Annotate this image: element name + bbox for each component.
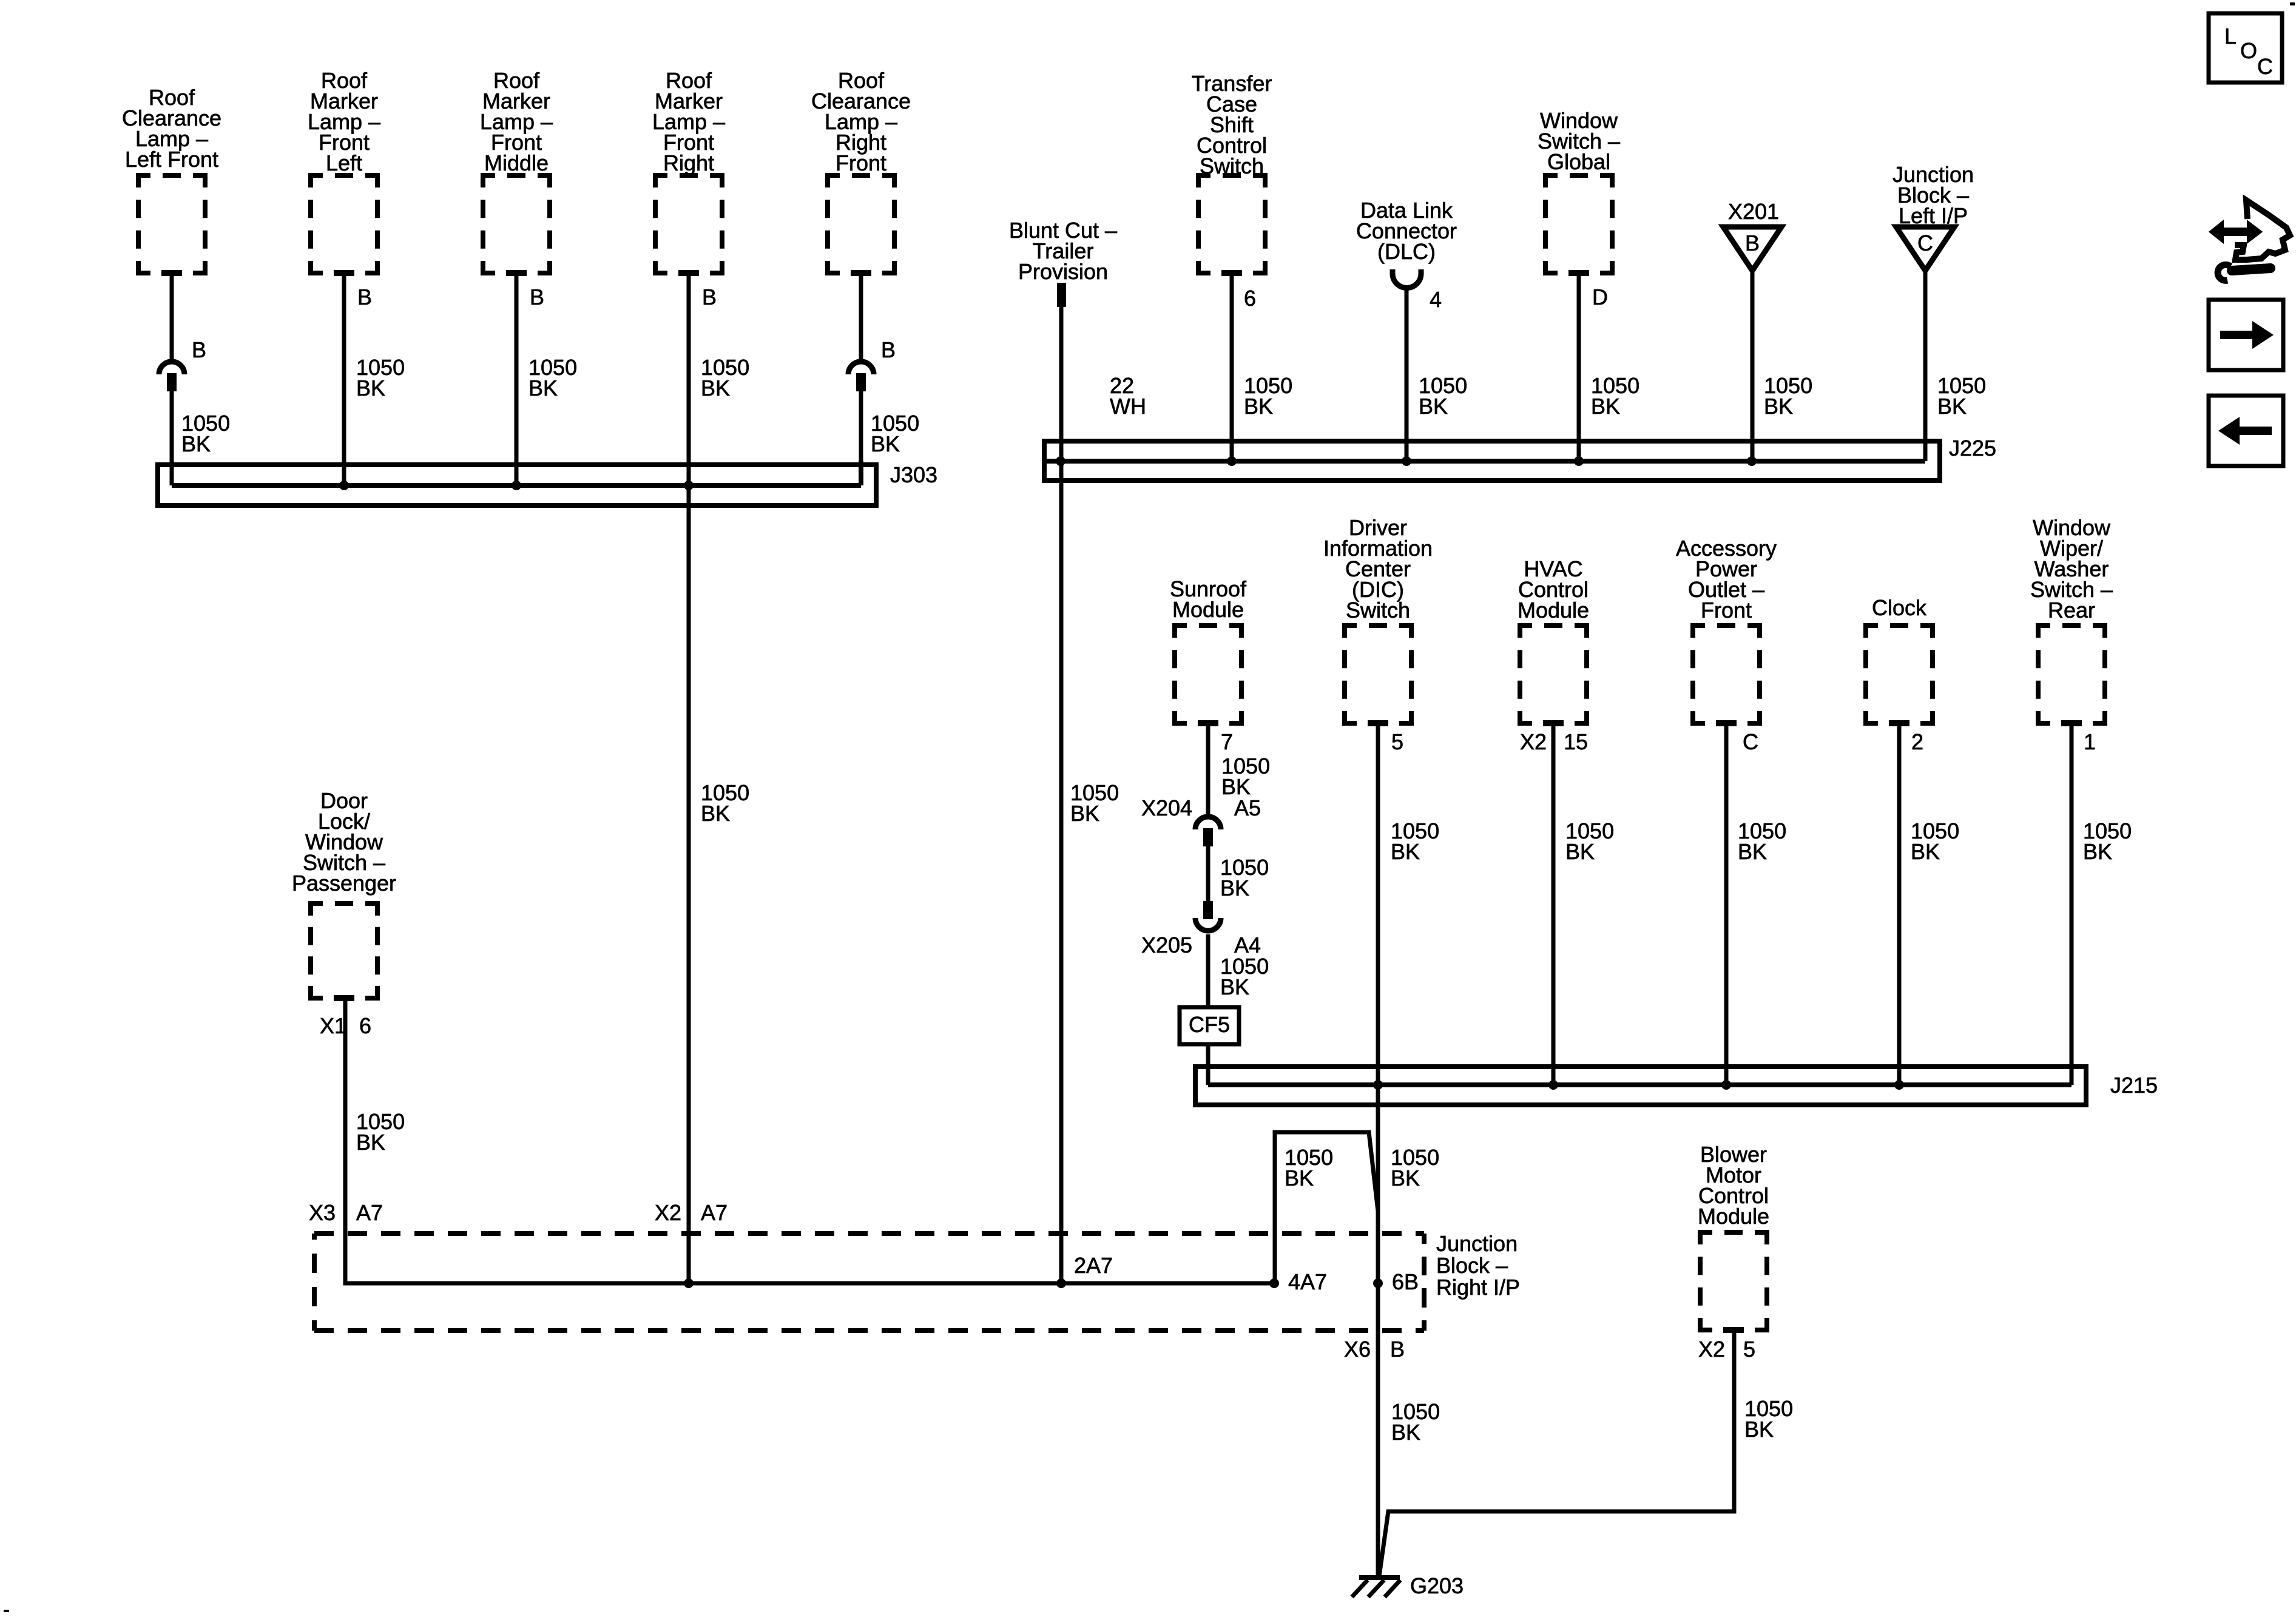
wire label 1050 BK (clock) xyxy=(1911,819,1959,864)
wire label 1050 BK (wire to 6B) xyxy=(1391,1145,1439,1190)
svg-text:A7: A7 xyxy=(356,1200,383,1225)
wire window switch pin D to J225 xyxy=(1577,273,1581,461)
wire label 1050 BK (ground wire below X6) xyxy=(1391,1399,1440,1445)
wire wiper/washer switch pin 1 to J215 right end xyxy=(2070,723,2074,1085)
pin labels X2 | 15 xyxy=(1520,729,1588,754)
svg-text:X1: X1 xyxy=(320,1013,346,1038)
wire roof marker lamp front middle to J303 xyxy=(515,273,519,485)
junction dot J225 / X201 wire xyxy=(1747,456,1757,466)
component driver information center (DIC) switch xyxy=(1323,515,1433,723)
inline connector X205 pin A4 xyxy=(1195,901,1221,931)
wire blower module X2-5 to ground G203 xyxy=(1379,1330,1734,1576)
svg-text:BK: BK xyxy=(528,376,558,400)
junction dot J303 / front right marker wire at 4A7 bus xyxy=(684,1278,694,1288)
component roof marker lamp - front left xyxy=(308,68,380,273)
svg-text:X205: X205 xyxy=(1141,933,1192,957)
component transfer case shift control switch xyxy=(1192,71,1272,273)
wire label 1050 BK (right front clearance lamp) xyxy=(871,411,919,456)
svg-text:BK: BK xyxy=(1070,801,1099,826)
svg-text:7: 7 xyxy=(1221,729,1233,754)
wire label 1050 BK (left front clearance lamp) xyxy=(181,411,230,456)
svg-text:1: 1 xyxy=(2084,729,2096,754)
svg-text:X3: X3 xyxy=(309,1200,336,1225)
inline clip terminal B of left front clearance lamp xyxy=(159,362,184,391)
junction dot J215 / accessory outlet wire xyxy=(1721,1080,1731,1090)
svg-text:J225: J225 xyxy=(1949,436,1996,461)
wire X204 to X205, 1050 BK xyxy=(1206,846,1210,902)
label junction block - right I/P xyxy=(1436,1231,1520,1300)
pin label C xyxy=(1743,729,1758,754)
wire label 1050 BK (above CF5) xyxy=(1220,954,1269,999)
junction dot 2A7 xyxy=(1056,1278,1066,1288)
wire label 1050 BK (wiper/washer switch) xyxy=(2083,819,2132,864)
svg-text:X201: X201 xyxy=(1728,199,1779,224)
label J225 xyxy=(1949,436,1996,461)
svg-text:BK: BK xyxy=(1220,974,1249,999)
svg-text:B: B xyxy=(702,285,717,309)
wire roof clearance lamp right front to J303 xyxy=(859,273,863,485)
svg-text:BK: BK xyxy=(1391,1420,1420,1445)
svg-text:5: 5 xyxy=(1743,1337,1755,1362)
junction dot J215 / clock wire xyxy=(1894,1080,1904,1090)
artifact top-right corner mark xyxy=(2290,2,2295,5)
splice pack J225 xyxy=(1044,441,1940,481)
connector junction block - left I/P (triangle C) xyxy=(1893,162,1974,271)
svg-text:6: 6 xyxy=(359,1013,371,1038)
component roof clearance lamp - left front xyxy=(122,85,221,273)
pin label 1 xyxy=(2084,729,2096,754)
junction dot J303 / front left marker wire xyxy=(339,481,349,490)
wire label 1050 BK (between X204 and X205) xyxy=(1220,855,1269,900)
junction dot J225 / blunt cut wire xyxy=(1056,456,1065,466)
svg-text:BK: BK xyxy=(356,1130,385,1155)
junction dot J225 / DLC wire xyxy=(1402,456,1411,466)
svg-text:A5: A5 xyxy=(1234,795,1261,820)
svg-text:J215: J215 xyxy=(2110,1073,2158,1098)
wire label 1050 BK (blower module) xyxy=(1744,1396,1793,1442)
svg-text:L: L xyxy=(2224,24,2237,49)
icon LOC box xyxy=(2209,13,2282,83)
label G203 xyxy=(1410,1573,1464,1598)
wire DLC pin 4 to J225 xyxy=(1405,288,1409,461)
wire roof clearance lamp left front to J303, circuit 1050 BK xyxy=(170,273,174,485)
wire HVAC module X2-15 to J215 xyxy=(1551,723,1556,1085)
label J303 xyxy=(890,462,937,487)
svg-text:BK: BK xyxy=(1911,839,1940,864)
svg-text:X2: X2 xyxy=(1520,729,1547,754)
wire label 1050 BK (accessory outlet) xyxy=(1738,819,1786,864)
svg-text:4: 4 xyxy=(1430,287,1442,312)
junction dot J215 / DIC wire xyxy=(1373,1080,1383,1090)
svg-text:15: 15 xyxy=(1564,729,1588,754)
svg-text:BK: BK xyxy=(871,431,900,456)
wire label 1050 BK (window switch global) xyxy=(1591,373,1639,419)
junction dot 4A7 xyxy=(1269,1278,1279,1288)
svg-text:6B: 6B xyxy=(1392,1269,1419,1294)
svg-text:BK: BK xyxy=(1419,394,1448,419)
wire label 1050 BK (front right marker lamp lower) xyxy=(701,780,749,826)
svg-text:BK: BK xyxy=(356,376,385,400)
junction dot J303 / front right marker wire xyxy=(684,481,694,490)
wire clock pin 2 to J215 xyxy=(1897,723,1902,1085)
pin labels X2 | A7 xyxy=(655,1200,728,1225)
svg-text:C: C xyxy=(2257,54,2273,79)
svg-text:BK: BK xyxy=(1738,839,1767,864)
artifact bottom-left corner mark xyxy=(4,1610,9,1612)
svg-text:B: B xyxy=(1745,231,1760,255)
wire CF5 to J215 xyxy=(1206,1044,1210,1085)
svg-text:BK: BK xyxy=(1591,394,1620,419)
svg-text:4A7: 4A7 xyxy=(1288,1269,1327,1294)
pin labels X3 | A7 xyxy=(309,1200,383,1225)
component roof marker lamp - front right xyxy=(652,68,725,273)
pin label D xyxy=(1592,285,1608,309)
svg-text:B: B xyxy=(357,285,372,309)
svg-text:5: 5 xyxy=(1391,729,1403,754)
svg-text:WindowSwitch –Global: WindowSwitch –Global xyxy=(1538,108,1620,174)
component clock xyxy=(1866,595,1933,723)
svg-text:B: B xyxy=(192,337,206,362)
wire junction block left I/P to J225 right end xyxy=(1923,271,1928,461)
svg-text:J303: J303 xyxy=(890,462,937,487)
icon previous-page arrow (left) xyxy=(2209,396,2283,466)
component blower motor control module xyxy=(1698,1142,1769,1330)
pin label 7 xyxy=(1221,729,1233,754)
svg-text:BK: BK xyxy=(701,801,730,826)
wire roof marker lamp front left to J303 xyxy=(342,273,346,485)
wire label 1050 BK (DLC) xyxy=(1419,373,1467,419)
component window switch - global xyxy=(1538,108,1620,273)
svg-text:BlowerMotorControlModule: BlowerMotorControlModule xyxy=(1698,1142,1769,1229)
wire label 1050 BK (front left marker lamp) xyxy=(356,355,405,400)
wire label 22 WH xyxy=(1110,373,1146,419)
svg-text:B: B xyxy=(530,285,544,309)
junction block - right I/P (dashed outline) xyxy=(314,1234,1424,1331)
pin labels X1 | 6 xyxy=(320,1013,371,1038)
svg-text:BK: BK xyxy=(1565,839,1595,864)
wire branch from DIC ground wire to junction block 4A7 xyxy=(1275,1132,1378,1283)
svg-text:X2: X2 xyxy=(1698,1337,1725,1362)
pin label 2 xyxy=(1911,729,1923,754)
wire transfer case switch pin 6 to J225 xyxy=(1230,273,1234,461)
svg-text:JunctionBlock –Right I/P: JunctionBlock –Right I/P xyxy=(1436,1231,1520,1300)
wire accessory outlet pin C to J215 xyxy=(1724,723,1729,1085)
inline clip terminal B of right front clearance lamp xyxy=(848,362,874,391)
svg-text:X204: X204 xyxy=(1141,795,1192,820)
junction dot J225 / window switch wire xyxy=(1574,456,1584,466)
svg-text:B: B xyxy=(881,337,896,362)
node blunt cut - trailer provision xyxy=(1009,218,1117,307)
svg-text:SunroofModule: SunroofModule xyxy=(1170,576,1247,622)
wire door lock switch X1-6 to junction block X3-A7 xyxy=(345,998,1274,1283)
svg-text:C: C xyxy=(1743,729,1758,754)
pin label B (front left marker lamp) xyxy=(357,285,372,309)
label 4A7 xyxy=(1288,1269,1327,1294)
svg-text:C: C xyxy=(1917,231,1933,255)
pin labels X6 | B xyxy=(1344,1337,1405,1362)
icon diagnostic (double arrow, outline, wrench) xyxy=(2210,200,2290,280)
wire sunroof module pin 7 to X204 xyxy=(1206,723,1210,815)
svg-text:BK: BK xyxy=(1391,839,1420,864)
wire label 1050 BK (HVAC) xyxy=(1565,819,1614,864)
wire blunt cut through J225 down to junction block 2A7, circuit 22 WH / 1050 BK xyxy=(1059,307,1064,1283)
svg-text:BK: BK xyxy=(1220,876,1249,900)
wire label 1050 BK (front right marker lamp upper) xyxy=(701,355,749,400)
pin label 5 xyxy=(1391,729,1403,754)
svg-text:X2: X2 xyxy=(655,1200,681,1225)
svg-text:BK: BK xyxy=(1391,1166,1420,1190)
component window wiper/washer switch - rear xyxy=(2030,515,2113,723)
pin labels X2 | 5 xyxy=(1698,1337,1755,1362)
svg-text:X6: X6 xyxy=(1344,1337,1371,1362)
svg-text:BK: BK xyxy=(1744,1417,1774,1442)
wire roof marker lamp front right through J303 down to junction block 4A7 xyxy=(687,273,691,1283)
component roof marker lamp - front middle xyxy=(480,68,553,273)
label 6B xyxy=(1392,1269,1419,1294)
pin label 4 xyxy=(1430,287,1442,312)
wire X201 to J225 xyxy=(1751,271,1755,461)
connector X201 (triangle B) xyxy=(1723,199,1781,271)
svg-text:WH: WH xyxy=(1110,394,1146,419)
label 2A7 xyxy=(1074,1253,1113,1278)
wire label 1050 BK (junction block left I/P) xyxy=(1937,373,1986,419)
junction dot 6B xyxy=(1373,1278,1383,1288)
splice pack J303 xyxy=(158,465,876,505)
junction dot J225 / transfer case wire xyxy=(1227,456,1237,466)
component accessory power outlet - front xyxy=(1676,536,1777,723)
component data link connector (DLC) xyxy=(1356,198,1457,288)
svg-text:JunctionBlock –Left I/P: JunctionBlock –Left I/P xyxy=(1893,162,1974,228)
wire X205 to fuse CF5, 1050 BK xyxy=(1206,934,1210,1007)
inline connector X204 pin A5 xyxy=(1195,817,1221,846)
svg-text:D: D xyxy=(1592,285,1608,309)
svg-text:BK: BK xyxy=(2083,839,2112,864)
svg-text:O: O xyxy=(2240,38,2257,63)
wire label 1050 BK (branch to 4A7) xyxy=(1285,1145,1333,1190)
fuse CF5 xyxy=(1180,1007,1239,1044)
svg-text:A7: A7 xyxy=(701,1200,728,1225)
wire label 1050 BK (X201) xyxy=(1764,373,1812,419)
svg-text:B: B xyxy=(1390,1337,1405,1362)
splice pack J215 xyxy=(1195,1067,2086,1105)
pin label 6 xyxy=(1244,286,1256,311)
wire label 1050 BK (sunroof) xyxy=(1221,754,1270,799)
pin label B (right front clearance lamp) xyxy=(881,337,896,362)
svg-text:2: 2 xyxy=(1911,729,1923,754)
svg-text:BK: BK xyxy=(181,431,211,456)
wire label 1050 BK (blunt cut lower) xyxy=(1070,780,1119,826)
svg-text:BK: BK xyxy=(1285,1166,1314,1190)
wire label 1050 BK (front middle marker lamp) xyxy=(528,355,577,400)
svg-text:BK: BK xyxy=(701,376,730,400)
wire label 1050 BK (door lock switch) xyxy=(356,1109,405,1155)
junction dot J303 / front middle marker wire xyxy=(512,481,521,490)
pin label B (left front clearance lamp) xyxy=(192,337,206,362)
svg-text:BK: BK xyxy=(1764,394,1793,419)
svg-text:HVACControlModule: HVACControlModule xyxy=(1518,556,1589,623)
svg-text:2A7: 2A7 xyxy=(1074,1253,1113,1278)
icon next-page arrow (right) xyxy=(2209,300,2283,370)
junction dot J215 / HVAC wire xyxy=(1548,1080,1558,1090)
component HVAC control module xyxy=(1518,556,1589,723)
wire DIC switch pin 5 through J215 and junction block 6B to ground xyxy=(1376,723,1380,1576)
component sunroof module xyxy=(1170,576,1247,723)
svg-text:G203: G203 xyxy=(1410,1573,1464,1598)
svg-text:BK: BK xyxy=(1244,394,1273,419)
component door lock/window switch - passenger xyxy=(292,788,396,998)
pin label B (front middle marker lamp) xyxy=(530,285,544,309)
label J215 xyxy=(2110,1073,2158,1098)
svg-text:BK: BK xyxy=(1937,394,1967,419)
wire label 1050 BK (transfer case switch) xyxy=(1244,373,1292,419)
labels X204 / A5 xyxy=(1141,795,1261,820)
svg-text:Clock: Clock xyxy=(1872,595,1927,620)
labels X205 / A4 xyxy=(1141,933,1261,957)
component roof clearance lamp - right front xyxy=(811,68,911,273)
pin label B (front right marker lamp) xyxy=(702,285,717,309)
wire label 1050 BK (DIC switch) xyxy=(1391,819,1439,864)
svg-text:6: 6 xyxy=(1244,286,1256,311)
svg-text:CF5: CF5 xyxy=(1189,1012,1230,1037)
ground G203 xyxy=(1352,1578,1400,1597)
